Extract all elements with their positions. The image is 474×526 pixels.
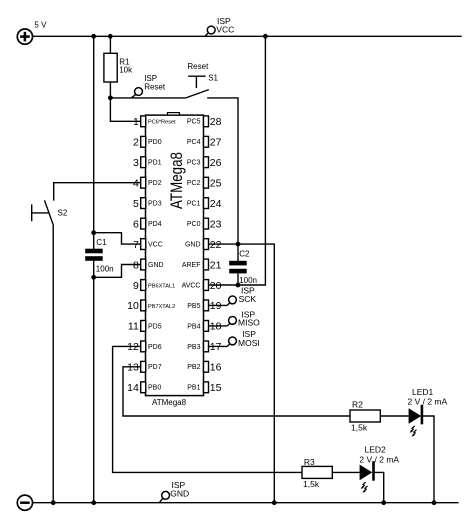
- wire pin 12 PD6 to R3: [113, 346, 302, 472]
- svg-text:SCK: SCK: [239, 294, 257, 304]
- pin 19 PB5: [187, 300, 221, 312]
- svg-text:C2: C2: [239, 249, 250, 258]
- ISP pad MOSI: [209, 329, 260, 348]
- wire R3 to LED2: [332, 471, 360, 473]
- ISP pad MISO: [209, 309, 261, 327]
- svg-text:27: 27: [210, 137, 222, 149]
- pin 13 PD7: [127, 361, 162, 373]
- pin 7 VCC: [133, 239, 163, 251]
- pin 4 PD2: [133, 177, 162, 189]
- svg-text:18: 18: [210, 321, 222, 333]
- wire LED2 to GND rail: [374, 472, 384, 502]
- svg-text:12: 12: [127, 341, 139, 353]
- svg-text:S1: S1: [208, 74, 218, 83]
- terminal +5V: [17, 29, 32, 44]
- wire S2 to pin 4: [54, 183, 142, 201]
- node VCC tap junction: [91, 230, 96, 235]
- wire S1 to GND drop: [207, 98, 238, 244]
- pin 9 PB6XTAL1: [133, 280, 175, 292]
- svg-text:7: 7: [133, 239, 139, 251]
- wire reset net to pin 1: [110, 98, 141, 122]
- svg-text:100n: 100n: [96, 264, 114, 273]
- resistor R2 1,5k: [350, 400, 380, 433]
- svg-text:MOSI: MOSI: [238, 338, 260, 348]
- pin 22 GND: [185, 239, 222, 251]
- svg-text:PD5: PD5: [148, 323, 162, 330]
- svg-text:PD1: PD1: [148, 160, 162, 167]
- pin 14 PB0: [127, 382, 161, 394]
- svg-text:10k: 10k: [119, 66, 133, 75]
- pin 27 PC4: [187, 136, 222, 148]
- svg-text:PC5: PC5: [187, 119, 201, 126]
- svg-text:AVCC: AVCC: [182, 282, 201, 289]
- svg-text:6: 6: [133, 218, 139, 230]
- junction LED2 GND: [381, 500, 386, 505]
- junction LED1 GND: [432, 500, 437, 505]
- svg-text:24: 24: [210, 198, 222, 210]
- pin 10 PB7XTAL2: [127, 300, 175, 312]
- svg-text:28: 28: [210, 116, 222, 128]
- ISP pad Reset: [132, 74, 166, 98]
- svg-text:21: 21: [210, 259, 222, 271]
- svg-text:GND: GND: [185, 242, 201, 249]
- resistor R3 1,5k: [302, 457, 332, 489]
- svg-text:17: 17: [210, 341, 222, 353]
- svg-text:PB5: PB5: [187, 303, 200, 310]
- svg-text:PD7: PD7: [148, 364, 162, 371]
- pushbutton S2: [32, 200, 68, 225]
- svg-text:13: 13: [127, 362, 139, 374]
- junction top rail / left branch: [91, 34, 96, 39]
- svg-text:GND: GND: [170, 489, 189, 499]
- svg-text:S2: S2: [58, 209, 68, 218]
- LED LED2 2V/2mA: [359, 445, 399, 493]
- svg-text:1,5k: 1,5k: [351, 423, 368, 433]
- svg-text:LED1: LED1: [412, 387, 434, 397]
- pin 16 PB2: [187, 361, 221, 373]
- svg-text:PD6: PD6: [148, 344, 162, 351]
- wire R2 to LED1: [380, 415, 409, 417]
- pushbutton S1 Reset: [186, 62, 219, 98]
- junction S2 GND: [51, 500, 56, 505]
- pin 3 PD1: [133, 157, 162, 169]
- svg-text:GND: GND: [148, 262, 164, 269]
- junction pin20 / C2: [236, 283, 241, 288]
- svg-text:16: 16: [210, 362, 222, 374]
- pin 18 PB4: [187, 321, 221, 333]
- pin 26 PC3: [187, 157, 222, 169]
- svg-text:PC4: PC4: [187, 139, 201, 146]
- pin 17 PB3: [187, 341, 221, 353]
- svg-text:2 V / 2 mA: 2 V / 2 mA: [359, 454, 399, 464]
- pin 15 PB1: [187, 382, 221, 394]
- svg-text:PB0: PB0: [148, 385, 161, 392]
- pin 5 PD3: [133, 198, 162, 210]
- svg-text:14: 14: [127, 382, 139, 394]
- svg-text:PD3: PD3: [148, 201, 162, 208]
- terminal GND minus: [17, 495, 32, 510]
- svg-text:20: 20: [210, 280, 222, 292]
- svg-text:8: 8: [133, 259, 139, 271]
- svg-text:PB3: PB3: [187, 344, 200, 351]
- pin 2 PD0: [133, 136, 162, 148]
- svg-text:PC2: PC2: [187, 180, 201, 187]
- junction AVCC on top rail: [263, 34, 268, 39]
- svg-text:26: 26: [210, 157, 222, 169]
- svg-text:23: 23: [210, 218, 222, 230]
- pin 12 PD6: [127, 341, 162, 353]
- junction top rail / R1: [108, 34, 113, 39]
- LED LED1 2V/2mA: [408, 387, 448, 437]
- svg-text:11: 11: [128, 321, 139, 333]
- svg-text:1: 1: [133, 116, 139, 128]
- resistor R1 10k: [104, 36, 133, 98]
- svg-text:5: 5: [133, 198, 139, 210]
- svg-text:4: 4: [133, 178, 139, 190]
- pin 24 PC1: [187, 198, 222, 210]
- pin 11 PD5: [128, 321, 162, 333]
- svg-text:PB4: PB4: [187, 323, 200, 330]
- pin 23 PC0: [187, 218, 222, 230]
- pin 8 GND: [133, 259, 164, 271]
- wire S2 to GND rail: [52, 225, 54, 502]
- ISP pad GND: [159, 480, 189, 503]
- pin 28 PC5: [187, 116, 222, 128]
- svg-text:100n: 100n: [239, 276, 257, 285]
- capacitor C1: [85, 238, 113, 273]
- svg-text:2 V / 2 mA: 2 V / 2 mA: [408, 397, 448, 407]
- svg-text:Reset: Reset: [187, 62, 209, 71]
- svg-text:PC3: PC3: [187, 160, 201, 167]
- svg-text:C1: C1: [96, 238, 107, 247]
- wire VCC tap to pin 7: [94, 233, 142, 244]
- svg-text:19: 19: [210, 300, 222, 312]
- junction GND drop on rail: [272, 500, 277, 505]
- svg-text:10: 10: [127, 300, 139, 312]
- svg-text:PC0: PC0: [187, 221, 201, 228]
- svg-text:22: 22: [210, 239, 222, 251]
- node GND tap junction: [91, 275, 96, 280]
- svg-text:MISO: MISO: [238, 318, 260, 328]
- pin 1 PC6*Reset: [133, 116, 176, 128]
- wire pin 13 PD7 to R2: [123, 367, 350, 416]
- svg-text:R2: R2: [352, 400, 363, 410]
- svg-text:PB6XTAL1: PB6XTAL1: [148, 283, 175, 289]
- junction left branch GND: [91, 500, 96, 505]
- wire 5V top rail: [33, 35, 462, 37]
- capacitor C2: [229, 244, 257, 285]
- ISP pad VCC: [205, 16, 234, 36]
- pin 21 AREF: [182, 259, 222, 271]
- svg-text:R3: R3: [304, 457, 315, 467]
- svg-text:PD0: PD0: [148, 139, 162, 146]
- svg-text:PD2: PD2: [148, 180, 162, 187]
- svg-text:LED2: LED2: [365, 445, 387, 455]
- wire GND bottom rail: [33, 502, 459, 504]
- svg-text:ATMega8: ATMega8: [152, 398, 187, 407]
- wire LED1 to GND rail: [422, 416, 434, 503]
- svg-text:VCC: VCC: [148, 242, 163, 249]
- svg-text:9: 9: [133, 280, 139, 292]
- junction pin22 / C2: [236, 242, 241, 247]
- wire left 5V branch down to C1: [93, 36, 95, 249]
- svg-text:5 V: 5 V: [34, 20, 47, 29]
- svg-text:ATMega8: ATMega8: [167, 152, 186, 209]
- svg-text:3: 3: [133, 157, 139, 169]
- wire pin 22 GND to rail: [209, 244, 275, 503]
- svg-text:PD4: PD4: [148, 221, 162, 228]
- junction reset net: [108, 95, 113, 100]
- pin 20 AVCC: [182, 280, 222, 292]
- wire pin 20 AVCC to 5V rail: [209, 36, 266, 285]
- svg-text:PC6*Reset: PC6*Reset: [148, 120, 176, 126]
- wire GND tap to pin 8: [94, 265, 142, 278]
- pin 6 PD4: [133, 218, 162, 230]
- wire reset net to S1: [110, 97, 185, 99]
- svg-text:2: 2: [133, 137, 139, 149]
- svg-text:AREF: AREF: [182, 262, 201, 269]
- svg-text:25: 25: [210, 178, 222, 190]
- svg-text:PB2: PB2: [187, 364, 200, 371]
- svg-text:PC1: PC1: [187, 201, 201, 208]
- pin 25 PC2: [187, 177, 222, 189]
- svg-text:PB1: PB1: [187, 385, 200, 392]
- svg-text:PB7XTAL2: PB7XTAL2: [148, 304, 175, 310]
- IC orientation notch: [168, 113, 180, 116]
- svg-text:1,5k: 1,5k: [303, 479, 320, 489]
- op IC U1 ATMega8 body: [146, 115, 204, 396]
- ISP pad SCK: [209, 286, 257, 306]
- wire C1 bottom to GND rail: [93, 260, 95, 502]
- svg-text:Reset: Reset: [144, 82, 166, 91]
- svg-text:15: 15: [210, 382, 222, 394]
- svg-text:VCC: VCC: [216, 25, 234, 35]
